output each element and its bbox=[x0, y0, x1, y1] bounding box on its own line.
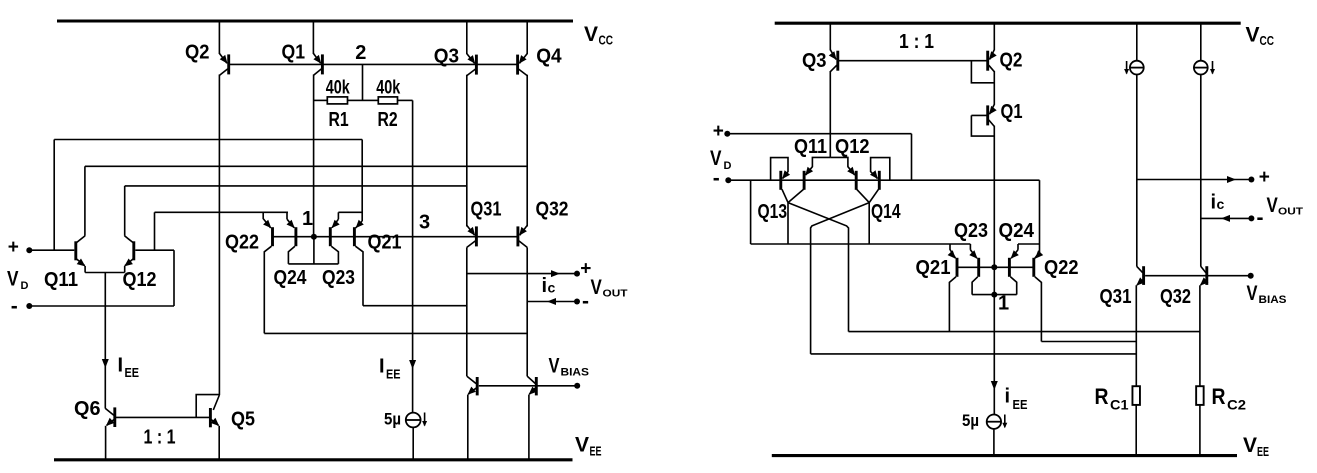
wire Q21/Q23 emitter tie bbox=[338, 211, 362, 213]
wire Q11 collector up to bus 2 bbox=[84, 166, 86, 236]
wire Q6 emitter to VEE bbox=[105, 426, 107, 460]
svg-text:Q11: Q11 bbox=[794, 136, 827, 158]
wire RC1 to VEE bbox=[1135, 405, 1137, 456]
svg-text:V: V bbox=[1246, 24, 1260, 47]
transistor Q6 (NPN, mirror left) bbox=[105, 408, 114, 415]
wire I2 to Q32 collector bbox=[1200, 75, 1202, 267]
transistor Q2 (PNP) bbox=[219, 53, 227, 63]
svg-text:Q32: Q32 bbox=[536, 199, 569, 221]
transistor Q31 (NPN, right panel) bbox=[1137, 266, 1143, 272]
quad base line (node 3 bus, Q22 Q24 Q23 Q21 Q31 Q32) bbox=[272, 236, 518, 238]
transistor Q5 (NPN, diode-connected) bbox=[213, 395, 219, 410]
svg-text:Q22: Q22 bbox=[1044, 257, 1079, 279]
wire + input to Q11 base bbox=[29, 249, 74, 251]
wire Q12 collector down-right to junction bbox=[857, 189, 870, 202]
svg-text:V: V bbox=[1267, 194, 1278, 217]
wire Q21 collector down bbox=[355, 246, 363, 306]
output terminal - (right panel) bbox=[1201, 217, 1252, 219]
wire base bus Q1 Q2 Q3 Q4 (node 2) bbox=[229, 63, 518, 65]
svg-text:3: 3 bbox=[419, 212, 430, 234]
svg-text:Q24: Q24 bbox=[999, 220, 1035, 242]
current arrow IEE (input pair) bbox=[102, 359, 109, 368]
wire Q32 emitter down to RC2 bbox=[1199, 285, 1201, 386]
wire Q23 collector down bbox=[331, 246, 338, 264]
wire quad output C (Q14 collector to Q31 emitter) bbox=[811, 353, 1137, 355]
svg-text:D: D bbox=[21, 280, 29, 292]
svg-text:EE: EE bbox=[386, 367, 401, 382]
wire Q2 collector down to Q5 bbox=[218, 75, 220, 396]
svg-text:Q21: Q21 bbox=[368, 232, 402, 254]
transistor Q14 (PNP with emitter loop, mirrored) bbox=[871, 158, 890, 181]
input terminal - (left panel) bbox=[26, 303, 32, 309]
wire Q23 collector down bbox=[972, 277, 978, 295]
svg-text:1 : 1: 1 : 1 bbox=[899, 31, 934, 53]
wire Q4 collector down to Q32 bbox=[526, 75, 528, 227]
svg-text:V: V bbox=[1247, 282, 1258, 305]
transistor Q1 emitter wire from VCC bbox=[312, 21, 314, 54]
svg-text:5µ: 5µ bbox=[384, 410, 401, 429]
svg-text:Q13: Q13 bbox=[758, 201, 788, 223]
svg-text:OUT: OUT bbox=[1278, 206, 1304, 218]
wire node 3 column (R2 to 5u source) bbox=[412, 100, 414, 412]
transistor Q3 (PNP, right panel) bbox=[830, 50, 836, 60]
wire Q2 diode connection loop bbox=[971, 61, 994, 83]
svg-text:+: + bbox=[713, 121, 724, 142]
svg-text:-: - bbox=[1257, 207, 1264, 230]
wire Q5-Q6 base tie bbox=[116, 416, 209, 418]
svg-text:Q12: Q12 bbox=[123, 269, 157, 291]
wire Q1 base stub and diode loop bbox=[971, 114, 987, 116]
wire VCC rail (right panel) bbox=[775, 22, 1241, 25]
transistor Q1 (PNP) bbox=[313, 53, 320, 63]
svg-text:Q1: Q1 bbox=[1001, 101, 1023, 123]
input terminal + (right panel) bbox=[724, 131, 730, 137]
wire Q11 emitter down bbox=[84, 266, 86, 273]
input terminal + (left panel) bbox=[26, 247, 32, 253]
transistor Q4 (PNP, mirrored) bbox=[519, 54, 527, 64]
output terminal - (left panel) bbox=[527, 301, 577, 303]
svg-text:EE: EE bbox=[1257, 444, 1269, 459]
svg-text:+: + bbox=[1259, 167, 1270, 188]
svg-text:i: i bbox=[1211, 192, 1217, 214]
transistor Q23 (PNP of quad, right panel) bbox=[969, 244, 971, 250]
transistor Q1 (PNP diode-connected, right panel) bbox=[990, 104, 995, 114]
wire Q22 collector down bbox=[264, 246, 271, 333]
svg-text:Q3: Q3 bbox=[434, 45, 459, 67]
svg-text:+: + bbox=[8, 237, 19, 258]
svg-text:Q21: Q21 bbox=[916, 257, 951, 279]
wire cross diagonal to Q31 side bbox=[811, 203, 870, 354]
transistor QB1 (NPN, VBIAS pair left) bbox=[467, 376, 476, 383]
wire Q21 collector to Q31 collector bbox=[363, 305, 467, 307]
svg-text:V: V bbox=[549, 355, 560, 378]
current source I2 wire from VCC bbox=[1200, 23, 1202, 61]
wire Q24 collector down bbox=[1010, 277, 1016, 295]
wire VEE rail (left panel) bbox=[54, 458, 573, 461]
transistor Q12 (NPN, mirrored) bbox=[125, 236, 134, 243]
svg-text:V: V bbox=[575, 434, 589, 457]
wire 5u source to VEE (right panel) bbox=[993, 429, 995, 456]
wire Q24/Q22 emitter feed bbox=[1018, 243, 1040, 245]
wire Q3 collector down to Q11/Q12 emitters bbox=[829, 71, 831, 157]
svg-text:C1: C1 bbox=[1110, 397, 1129, 413]
wire Q11-Q12 emitter tie bbox=[85, 272, 125, 274]
current source I1 (left, right panel) bbox=[1130, 61, 1144, 75]
wire VCC rail (left panel) bbox=[57, 19, 573, 22]
svg-text:5µ: 5µ bbox=[962, 411, 979, 430]
wire Q22 collector to Q32 collector (bus) bbox=[264, 332, 527, 334]
wire Q11 collector down-left to junction bbox=[788, 189, 804, 202]
svg-text:1: 1 bbox=[302, 208, 313, 230]
svg-text:I: I bbox=[379, 356, 385, 378]
svg-text:CC: CC bbox=[599, 33, 614, 48]
wire cross diagonal to Q32 side bbox=[788, 203, 849, 332]
transistor Q2 emitter wire from VCC bbox=[218, 21, 220, 54]
wire - input line bbox=[29, 305, 174, 307]
input terminal - (right panel) bbox=[725, 177, 731, 183]
svg-text:Q31: Q31 bbox=[471, 199, 502, 221]
svg-text:R: R bbox=[1095, 384, 1109, 409]
wire Q23-Q24 collector tie (node 1, right panel) bbox=[972, 294, 1017, 296]
transistor Q11 (PNP, right panel) bbox=[806, 157, 831, 175]
svg-text:Q11: Q11 bbox=[44, 269, 78, 291]
wire Q31 collector down bbox=[466, 247, 468, 376]
wire Q12 emitter down bbox=[124, 266, 126, 273]
wire feedforward bus 4 (-input to Q22/Q24 emitters) bbox=[154, 212, 156, 250]
wire base tie Q3-Q2 (right panel) bbox=[838, 60, 988, 62]
transistor Q3 emitter wire from VCC bbox=[466, 21, 468, 54]
node 1 junction dot bbox=[311, 234, 317, 240]
output terminal + (left panel) bbox=[467, 273, 577, 275]
svg-text:Q14: Q14 bbox=[871, 201, 901, 223]
svg-text:D: D bbox=[724, 160, 732, 172]
transistor Q11 (NPN) bbox=[76, 236, 85, 243]
svg-text:Q5: Q5 bbox=[231, 409, 255, 431]
wire + input over to base bus bbox=[727, 133, 911, 135]
wire Q5 emitter to VEE bbox=[218, 426, 220, 460]
wire node 2 to R1-R2 junction bbox=[362, 64, 364, 100]
transistor Q22 (PNP of quad) bbox=[263, 212, 271, 228]
resistor R2 (40k) bbox=[363, 99, 379, 101]
svg-text:c: c bbox=[548, 280, 556, 296]
svg-text:V: V bbox=[7, 267, 19, 290]
wire junction down to emitter bus (left) bbox=[787, 203, 789, 244]
svg-text:EE: EE bbox=[590, 444, 602, 459]
svg-text:V: V bbox=[584, 23, 598, 46]
wire feedforward bus 1 (+input to Q21/Q23 emitters) bbox=[53, 140, 55, 251]
transistor Q23 (PNP of quad, mirrored) bbox=[337, 212, 339, 219]
svg-text:1 : 1: 1 : 1 bbox=[144, 427, 176, 449]
transistor QB2 (NPN, VBIAS pair right) bbox=[527, 376, 535, 383]
current arrow iEE (right panel) bbox=[991, 381, 998, 390]
svg-text:V: V bbox=[591, 276, 602, 299]
svg-text:Q2: Q2 bbox=[185, 41, 210, 63]
svg-text:Q3: Q3 bbox=[802, 50, 827, 72]
svg-text:c: c bbox=[1217, 196, 1225, 212]
svg-text:-: - bbox=[582, 290, 589, 313]
wire VEE rail (right panel) bbox=[772, 454, 1237, 457]
node 1 junction dot (right panel) bbox=[991, 264, 997, 270]
wire Q5 diode connection loop bbox=[196, 395, 219, 418]
svg-text:40k: 40k bbox=[326, 77, 350, 98]
svg-text:BIAS: BIAS bbox=[561, 367, 590, 379]
wire Q23-Q24 collector tie (node 1) bbox=[288, 263, 338, 265]
wire Q14 collector diagonal bbox=[869, 189, 878, 202]
wire Q31 emitter down to RC1 bbox=[1135, 285, 1137, 386]
svg-text:OUT: OUT bbox=[603, 288, 629, 300]
output terminal + (right panel) bbox=[1137, 179, 1252, 181]
svg-text:Q6: Q6 bbox=[74, 398, 101, 420]
wire Q21 collector down bbox=[949, 277, 956, 332]
wire I1 to Q31 collector bbox=[1136, 75, 1138, 267]
svg-text:40k: 40k bbox=[376, 77, 400, 98]
svg-text:i: i bbox=[542, 275, 548, 297]
transistor Q13 (PNP with emitter loop) bbox=[771, 158, 788, 181]
svg-text:V: V bbox=[1243, 434, 1257, 457]
wire Q32 collector down bbox=[526, 247, 528, 376]
svg-text:Q24: Q24 bbox=[274, 267, 308, 289]
wire 5u source to VEE bbox=[412, 427, 414, 459]
resistor R1 (40k) bbox=[314, 99, 328, 101]
wire Q2 collector to Q1 emitter bbox=[993, 71, 995, 105]
svg-text:Q2: Q2 bbox=[1000, 50, 1023, 72]
svg-text:R: R bbox=[1212, 384, 1226, 409]
svg-text:C2: C2 bbox=[1227, 397, 1246, 413]
svg-text:R2: R2 bbox=[378, 109, 398, 131]
transistor Q2 (PNP diode-connected, right panel) bbox=[990, 50, 995, 60]
current arrow IEE (center column) bbox=[409, 360, 416, 369]
transistor Q2 emitter wire from VCC (right panel) bbox=[993, 23, 995, 50]
wire Q24 collector down bbox=[288, 246, 295, 264]
wire junction down to emitter bus (right) bbox=[868, 203, 870, 244]
svg-text:EE: EE bbox=[125, 365, 140, 380]
wire base line corner down to Q24/Q22 emitters bbox=[1039, 180, 1041, 244]
transistor Q31 (PNP cascode) bbox=[467, 225, 475, 235]
svg-text:Q23: Q23 bbox=[954, 220, 988, 242]
transistor Q32 (NPN, right panel) bbox=[1201, 266, 1206, 272]
svg-text:EE: EE bbox=[1013, 397, 1028, 412]
svg-text:Q23: Q23 bbox=[322, 267, 355, 289]
quad base line (right panel) bbox=[956, 266, 1035, 268]
svg-text:Q31: Q31 bbox=[1100, 286, 1132, 308]
wire Q12 collector up to bus 3 bbox=[124, 186, 126, 236]
wire quad output B (Q22 collector to Q31 emitter) bbox=[1041, 341, 1136, 343]
wire feedforward bus 3 (Q12 collector to Q31 emitter) bbox=[125, 185, 467, 187]
svg-text:-: - bbox=[11, 295, 18, 318]
wire tail current IEE (input pair) bbox=[104, 273, 106, 409]
svg-text:R1: R1 bbox=[329, 109, 349, 131]
transistor Q21 (PNP of quad, right panel) bbox=[950, 244, 956, 258]
svg-text:I: I bbox=[118, 355, 124, 377]
svg-text:Q32: Q32 bbox=[1160, 286, 1191, 308]
svg-text:Q1: Q1 bbox=[282, 41, 306, 63]
current source 5u (left panel) bbox=[406, 413, 421, 428]
svg-text:BIAS: BIAS bbox=[1259, 294, 1287, 306]
transistor Q21 (PNP of quad, mirrored) bbox=[356, 221, 363, 228]
current source 5u (right panel) bbox=[987, 415, 1001, 429]
transistor Q3 (PNP) bbox=[467, 54, 475, 64]
wire QB1 emitter to VEE bbox=[467, 395, 469, 460]
svg-text:Q4: Q4 bbox=[536, 45, 562, 67]
wire VBIAS base line and terminal bbox=[479, 385, 577, 387]
svg-text:i: i bbox=[1005, 386, 1011, 408]
wire Q1 collector down to node 1 bbox=[313, 75, 315, 237]
wire Q3 collector down to Q31 bbox=[466, 75, 468, 227]
wire Q11/Q12 collectors to Q21/Q23 emitters bbox=[750, 180, 752, 244]
wire quad output A (Q13/Q21 collectors to Q32 emitter) bbox=[849, 331, 1200, 333]
transistor Q12 (PNP mirrored, right panel) bbox=[830, 157, 854, 175]
current source I2 (right, right panel) bbox=[1194, 61, 1208, 75]
svg-text:Q22: Q22 bbox=[225, 232, 259, 254]
wire feedforward bus 2 (Q11 collector to Q32 emitter) bbox=[85, 165, 527, 167]
svg-text:-: - bbox=[713, 167, 720, 190]
transistor Q4 emitter wire from VCC bbox=[526, 21, 528, 54]
transistor Q3 emitter wire from VCC (right panel) bbox=[829, 23, 831, 50]
resistor RC1 bbox=[1132, 386, 1140, 405]
transistor Q24 (PNP of quad, mirrored, right panel) bbox=[1017, 244, 1019, 250]
transistor Q24 (PNP of quad) bbox=[286, 212, 288, 219]
wire Q22 collector down bbox=[1035, 277, 1042, 342]
wire Q1 collector down to quad bbox=[993, 126, 995, 268]
wire tail current to 5u source (right panel) bbox=[993, 295, 995, 415]
wire RC2 to VEE bbox=[1199, 405, 1201, 456]
wire QB2 emitter to VEE bbox=[528, 395, 530, 460]
svg-text:1: 1 bbox=[998, 292, 1009, 314]
svg-text:2: 2 bbox=[355, 42, 366, 64]
current source I1 wire from VCC bbox=[1136, 23, 1138, 61]
transistor Q32 (PNP cascode, mirrored) bbox=[520, 225, 528, 235]
wire Q13 collector diagonal bbox=[782, 189, 788, 202]
svg-text:Q12: Q12 bbox=[835, 136, 870, 158]
wire - input / common base line of Q13 Q11 Q12 Q14 bbox=[728, 179, 1039, 181]
resistor RC2 bbox=[1196, 386, 1204, 405]
svg-text:CC: CC bbox=[1260, 33, 1275, 48]
wire VBIAS base line and terminal (right panel) bbox=[1145, 275, 1251, 277]
transistor Q22 (PNP of quad, mirrored, right panel) bbox=[1035, 244, 1040, 258]
